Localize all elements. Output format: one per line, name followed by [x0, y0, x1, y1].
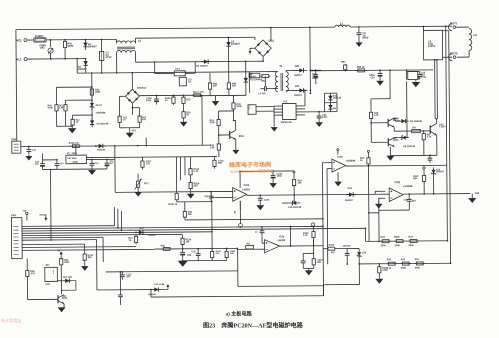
- svg-text:图23 奔腾PC20N—AF型电磁炉电路: 图23 奔腾PC20N—AF型电磁炉电路: [203, 322, 304, 330]
- wire comp input: [177, 201, 211, 203]
- ground Q11: [63, 304, 65, 307]
- wire IC2b feedback: [289, 227, 291, 246]
- op-amp IC3C: [332, 159, 346, 172]
- svg-text:LM339B: LM339B: [403, 185, 413, 188]
- wire left drop: [49, 169, 52, 240]
- wire mid drop from top rail: [309, 27, 311, 70]
- ground IC3C: [337, 172, 339, 181]
- resistor R16: [183, 110, 185, 111]
- wire to row1: [364, 228, 366, 241]
- wire stub x146: [145, 138, 147, 146]
- wire feedback corner: [358, 264, 360, 284]
- resistor R13c: [175, 157, 177, 191]
- resistor R56: [26, 259, 28, 268]
- bus wire 5: [22, 234, 182, 235]
- svg-text:1N4007: 1N4007: [436, 170, 445, 173]
- svg-text:473u: 473u: [421, 76, 427, 79]
- svg-text:1N4007: 1N4007: [294, 74, 303, 77]
- ground RT1: [137, 190, 139, 192]
- svg-text:D11: D11: [348, 187, 353, 190]
- svg-text:4.7k: 4.7k: [303, 234, 308, 237]
- fuse FUSE1: [34, 38, 46, 42]
- svg-text:T1: T1: [279, 64, 283, 68]
- wire gate rail: [393, 127, 395, 131]
- svg-text:100u: 100u: [277, 176, 283, 178]
- svg-text:IC2B: IC2B: [395, 181, 401, 184]
- resistor R22b: [190, 180, 192, 183]
- snubber C25: [260, 88, 264, 90]
- svg-text:1N4007: 1N4007: [294, 94, 303, 97]
- wire C18 loop: [408, 204, 410, 210]
- svg-text:L1: L1: [340, 22, 344, 26]
- op-amp IC2B: [389, 188, 403, 202]
- resistor R20: [184, 202, 186, 210]
- optocoupler loop: [323, 93, 325, 111]
- snubber D18: [250, 73, 260, 78]
- diode D11: [346, 193, 356, 195]
- svg-text:1N4148: 1N4148: [333, 97, 342, 100]
- wire branch left: [56, 86, 91, 88]
- resistor R46: [73, 114, 92, 116]
- svg-text:GND: GND: [72, 162, 77, 164]
- diode D10: [135, 231, 146, 233]
- svg-text:560k: 560k: [64, 262, 70, 264]
- ground cluster top: [212, 101, 220, 106]
- svg-text:1N4007: 1N4007: [248, 75, 256, 78]
- svg-text:D21: D21: [295, 85, 300, 88]
- resistor R15a: [183, 94, 185, 96]
- resistor R13c2: [131, 103, 133, 114]
- svg-text:630V: 630V: [362, 35, 368, 39]
- svg-text:www.dzsc.com 维库专区: www.dzsc.com 维库专区: [230, 167, 274, 173]
- wire under cluster: [202, 94, 246, 96]
- svg-text:NTC: NTC: [132, 130, 137, 132]
- zener D8: [394, 137, 398, 139]
- svg-text:1N4007: 1N4007: [88, 44, 98, 48]
- resistor R14: [218, 117, 220, 119]
- diode D14: [150, 289, 152, 291]
- wire plus input: [115, 190, 232, 193]
- zener ZD2: [91, 100, 93, 110]
- svg-text:D15 1N4009: D15 1N4009: [249, 78, 263, 81]
- svg-text:240k: 240k: [395, 244, 401, 247]
- svg-text:GD17 47D: GD17 47D: [193, 91, 204, 94]
- resistor R36: [161, 248, 164, 250]
- svg-text:R36: R36: [161, 245, 166, 247]
- svg-text:R13b 10k: R13b 10k: [69, 143, 80, 145]
- capacitor C30: [429, 155, 431, 158]
- transistor Q2: [371, 141, 388, 143]
- capacitor C5 resonant: [423, 26, 425, 28]
- resistor R117b: [141, 157, 143, 158]
- varistor FNR1: [50, 39, 52, 41]
- wire R56 top: [26, 258, 28, 260]
- resistor R220: [378, 263, 380, 265]
- bus wire 8: [22, 243, 84, 245]
- svg-text:4.7k: 4.7k: [30, 272, 35, 275]
- ground R219: [305, 270, 313, 275]
- svg-text:270k: 270k: [210, 122, 216, 124]
- bridge rectifier DB1: [255, 40, 272, 57]
- capacitor C21b: [272, 171, 274, 175]
- resistor R44: [64, 103, 66, 104]
- wire sample vertical: [91, 73, 93, 120]
- svg-text:LM339: LM339: [242, 188, 250, 191]
- svg-text:T120T: T120T: [439, 126, 446, 128]
- svg-text:1N4007: 1N4007: [231, 42, 241, 46]
- ground IC2B out: [471, 194, 473, 198]
- wire IC2B plus: [375, 190, 385, 192]
- resistor R55: [367, 156, 369, 158]
- capacitor C122: [121, 272, 123, 275]
- transistor Q3: [219, 134, 230, 136]
- svg-text:200k: 200k: [415, 267, 421, 269]
- resistor R17b: [135, 234, 137, 236]
- resistor R6: [412, 129, 421, 132]
- svg-text:GD2 LED: GD2 LED: [63, 277, 73, 279]
- wire mains to bridge: [135, 36, 254, 39]
- bus wire 10: [22, 249, 154, 250]
- ground IC2B minus: [375, 204, 383, 209]
- wire 18V rail: [139, 94, 201, 96]
- svg-text:330K: 330K: [67, 44, 73, 48]
- capacitor C123: [119, 272, 121, 292]
- svg-text:RT1: RT1: [144, 182, 149, 185]
- wire cluster rail: [155, 247, 238, 250]
- heating coil L3: [456, 26, 469, 28]
- resistor R219: [313, 257, 315, 258]
- resistor R15: [218, 128, 220, 142]
- capacitor C219b: [259, 194, 261, 196]
- ground near bridge: [250, 47, 255, 49]
- svg-text:JP1: JP1: [45, 264, 50, 267]
- resistor R51: [344, 70, 346, 72]
- resistor R122: [312, 226, 314, 229]
- diode D3: [201, 61, 211, 63]
- op-amp IC2b: [265, 240, 280, 253]
- IGBT G10: [429, 125, 431, 133]
- resistor R19: [293, 176, 295, 179]
- resistor R14a: [173, 95, 175, 97]
- wire VIPer left bus: [273, 106, 275, 126]
- svg-text:1N4148B: 1N4148B: [96, 111, 106, 114]
- capacitor C3: [358, 26, 360, 28]
- ground cluster left: [66, 125, 73, 127]
- diode D4: [85, 58, 87, 60]
- bridge rectifier DB2: [125, 89, 139, 103]
- wire 5V rail lower: [86, 157, 216, 158]
- svg-text:R15: R15: [186, 99, 191, 101]
- svg-text:Z1b 1N4148: Z1b 1N4148: [288, 206, 302, 209]
- svg-text:a) 主板电路: a) 主板电路: [226, 309, 253, 317]
- wire mid vertical: [211, 202, 213, 249]
- svg-text:R51: R51: [341, 61, 346, 64]
- capacitor C24: [379, 69, 381, 71]
- resistor R8: [423, 130, 425, 133]
- svg-text:D13: D13: [475, 192, 480, 195]
- svg-text:200k: 200k: [409, 245, 415, 247]
- wire driver rail: [370, 99, 372, 111]
- diode D1: [85, 39, 87, 41]
- svg-text:24bC20: 24bC20: [343, 245, 351, 248]
- power R117: [423, 167, 425, 169]
- svg-text:Vin Vout: Vin Vout: [67, 157, 76, 160]
- svg-text:IC2b: IC2b: [279, 235, 285, 238]
- resistor R49: [232, 95, 234, 100]
- block JP1: [45, 267, 58, 281]
- resistor R120: [323, 248, 328, 250]
- wire stubs to comparator: [179, 157, 181, 180]
- svg-text:R13: R13: [387, 259, 392, 261]
- transistor Q1: [371, 122, 388, 124]
- capacitor C18: [408, 194, 410, 196]
- svg-text:DB1: DB1: [268, 39, 274, 43]
- svg-text:DB-B12: DB-B12: [137, 87, 146, 90]
- svg-text:R19: R19: [409, 237, 414, 239]
- svg-text:R50 1k: R50 1k: [357, 66, 365, 69]
- svg-text:D14 L14B: D14 L14B: [154, 283, 164, 286]
- resistor R50: [355, 69, 358, 71]
- inductor L1: [335, 25, 350, 27]
- svg-text:1N4007: 1N4007: [345, 199, 354, 202]
- diode D4b: [91, 118, 93, 127]
- capacitor C13: [91, 160, 93, 164]
- resistor R211: [84, 244, 86, 252]
- resistor R43: [55, 103, 57, 104]
- wire VIPer drain: [304, 90, 306, 105]
- wire gnd rail 5V: [42, 168, 106, 171]
- connector CN2: [12, 141, 21, 153]
- bus wire 2 long: [22, 226, 323, 228]
- resistor R117: [423, 172, 425, 175]
- svg-text:1Ω: 1Ω: [188, 81, 191, 83]
- svg-text:R120: R120: [329, 245, 335, 247]
- svg-text:L4 102: L4 102: [258, 92, 266, 95]
- resistor R123b: [211, 249, 213, 252]
- bus wire 7: [22, 239, 96, 242]
- svg-text:22u: 22u: [187, 255, 192, 257]
- ground C17: [28, 154, 30, 157]
- resistor R45: [91, 86, 93, 89]
- wire HV bus verticals: [434, 60, 436, 119]
- wire IC3C out drop: [367, 166, 370, 241]
- svg-text:CT1: CT1: [175, 68, 180, 71]
- svg-text:CX0: CX0: [45, 284, 50, 286]
- svg-text:D10: D10: [139, 228, 144, 230]
- resistor R12b: [182, 235, 184, 236]
- ground R211: [84, 262, 86, 266]
- resistor R41: [64, 39, 66, 41]
- svg-text:IC3C: IC3C: [337, 156, 343, 159]
- svg-text:8050: 8050: [62, 298, 68, 300]
- svg-text:5.1k: 5.1k: [194, 171, 199, 173]
- wire IC3C out: [345, 164, 446, 167]
- capacitor C14: [56, 160, 58, 164]
- choke L5 common-mode filter: [115, 39, 117, 43]
- svg-text:L3: L3: [473, 33, 477, 37]
- wire IC2B out: [404, 193, 470, 196]
- diode D20: [296, 69, 307, 71]
- svg-text:CN1: CN1: [11, 213, 17, 217]
- svg-text:C219: C219: [264, 200, 270, 202]
- capacitor C12: [106, 159, 108, 163]
- svg-text:D6 1N4148: D6 1N4148: [410, 120, 422, 123]
- svg-text:FUSE1: FUSE1: [35, 34, 44, 38]
- wire to IC2b: [236, 247, 238, 250]
- resistor R71b: [213, 157, 215, 158]
- zener Z03: [358, 248, 360, 259]
- resistor R11b: [246, 246, 254, 249]
- svg-text:D3 1N4007: D3 1N4007: [196, 65, 208, 68]
- terminal AL1: [24, 58, 27, 61]
- svg-text:R12: R12: [401, 259, 406, 261]
- power IC3C: [337, 151, 339, 155]
- diode LED D22: [57, 280, 62, 282]
- bus wire A: [185, 219, 323, 220]
- svg-text:275V: 275V: [106, 55, 112, 59]
- capacitor C17: [28, 146, 30, 148]
- row1 resistors: [378, 210, 380, 241]
- resistor R42: [60, 256, 62, 258]
- svg-text:ZD 87: ZD 87: [95, 105, 102, 107]
- resistor R124: [226, 248, 228, 251]
- capacitor C24b: [315, 70, 317, 74]
- resistor R47: [209, 73, 211, 81]
- wire branch 2: [65, 99, 91, 101]
- svg-text:220u: 220u: [312, 78, 318, 80]
- diode D13: [329, 93, 331, 102]
- zener Z1b: [288, 202, 300, 204]
- svg-text:4.7k: 4.7k: [427, 135, 432, 138]
- resistor R18: [370, 111, 372, 112]
- ground C3: [358, 40, 360, 42]
- capacitor C10a: [156, 95, 158, 97]
- capacitor C31: [261, 227, 263, 231]
- pin 7 mark: [311, 223, 315, 227]
- svg-text:LM339B: LM339B: [346, 159, 356, 162]
- svg-text:C18: C18: [403, 200, 408, 202]
- connector CN3: [248, 105, 256, 115]
- diode D5: [394, 117, 398, 119]
- svg-text:8550: 8550: [393, 140, 399, 142]
- ground C219b: [259, 203, 261, 205]
- svg-text:4B: 4B: [333, 107, 336, 110]
- svg-text:+5V: +5V: [22, 211, 26, 213]
- CT1 secondary: [179, 77, 186, 86]
- ground C21b: [272, 182, 274, 183]
- ground VIPer: [271, 127, 278, 132]
- svg-text:1200V: 1200V: [428, 44, 436, 48]
- svg-text:1.2k: 1.2k: [210, 147, 215, 149]
- ground R220: [378, 276, 380, 279]
- power +5V R42: [60, 253, 62, 256]
- ground C19: [415, 79, 417, 81]
- svg-text:ACL: ACL: [16, 38, 22, 42]
- svg-text:C16: C16: [204, 196, 209, 198]
- IC2 VIPer12A: [282, 103, 296, 119]
- bus wire 4: [22, 231, 135, 234]
- transistor Q11: [28, 298, 58, 300]
- svg-text:R13b 1k: R13b 1k: [168, 204, 178, 206]
- capacitor C16: [210, 191, 212, 193]
- svg-text:IC2: IC2: [283, 99, 288, 103]
- svg-text:1N4007: 1N4007: [78, 67, 88, 71]
- svg-text:220k: 220k: [381, 245, 387, 247]
- wire long mid: [106, 271, 238, 272]
- wire emitter rail: [390, 154, 436, 156]
- power +5V R19: [293, 173, 295, 176]
- wire IC2b out: [280, 245, 323, 247]
- resistor R13b: [70, 145, 73, 147]
- wire to driver: [389, 69, 391, 71]
- capacitor C30b: [197, 249, 199, 254]
- resistor R17a diode: [192, 94, 193, 96]
- resistor R52 block: [406, 69, 408, 71]
- svg-text:1N4148: 1N4148: [97, 148, 106, 151]
- ground R16: [183, 119, 185, 121]
- svg-text:R202: R202: [394, 237, 400, 239]
- op-amp IC1a: [233, 188, 247, 202]
- svg-text:VIPer12A: VIPer12A: [281, 120, 292, 124]
- resistor R48: [228, 61, 230, 81]
- resistor R12c: [119, 115, 121, 116]
- ground C20: [318, 121, 320, 122]
- snubber R53: [260, 75, 262, 77]
- ground cluster: [182, 258, 184, 260]
- svg-text:IC1B: IC1B: [244, 184, 250, 187]
- wire top rail: [16, 27, 335, 30]
- power R55: [367, 152, 369, 155]
- svg-text:C17: C17: [32, 150, 37, 152]
- wire IGBT collector: [436, 119, 438, 123]
- capacitor C12b: [182, 249, 184, 252]
- svg-text:2.9M: 2.9M: [382, 270, 387, 272]
- ground driver: [386, 156, 394, 161]
- IC1 7805 regulator: [66, 155, 87, 164]
- diode D2: [228, 37, 230, 39]
- wire 18V feed: [21, 145, 211, 146]
- svg-text:100n: 100n: [322, 117, 328, 119]
- svg-text:4.7k: 4.7k: [374, 114, 379, 117]
- wire cluster gnd rail: [182, 259, 227, 261]
- capacitor C?20: [346, 249, 348, 251]
- diode D13b: [96, 145, 106, 147]
- wire AL1 lower path: [76, 59, 78, 73]
- thermistor RT1: [137, 174, 139, 179]
- wire 300V rail: [310, 69, 433, 72]
- diode D21: [296, 89, 307, 91]
- connector CN1: [11, 218, 22, 259]
- wire 5V down feed: [114, 146, 116, 192]
- svg-text:8050: 8050: [239, 136, 245, 138]
- svg-text:1N4148: 1N4148: [148, 293, 156, 296]
- ground R22b: [190, 191, 192, 193]
- svg-text:240k: 240k: [236, 105, 242, 108]
- arrow sym: [39, 215, 46, 219]
- svg-text:电子发烧友: 电子发烧友: [1, 317, 21, 323]
- wire left border: [15, 30, 18, 141]
- capacitor C20: [318, 112, 320, 113]
- current transformer CT1: [154, 62, 156, 73]
- svg-text:AL1: AL1: [16, 57, 22, 61]
- wire drop x202: [201, 95, 203, 145]
- wire IC2b minus: [261, 237, 263, 243]
- wire IGBT emitter: [436, 135, 438, 155]
- diode D14b: [329, 103, 331, 112]
- svg-text:10Ω: 10Ω: [40, 46, 45, 50]
- svg-text:C24: C24: [370, 76, 375, 79]
- svg-text:200k: 200k: [401, 268, 407, 270]
